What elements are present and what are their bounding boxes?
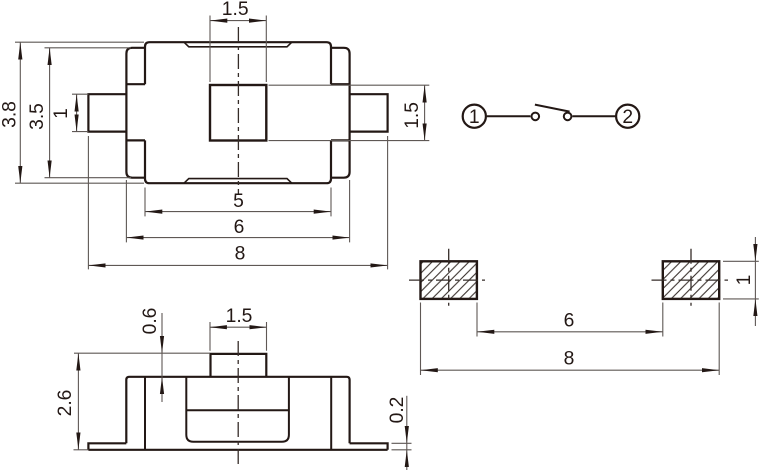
svg-text:1.5: 1.5 xyxy=(222,0,249,20)
svg-text:8: 8 xyxy=(564,349,575,370)
svg-text:0.2: 0.2 xyxy=(387,397,408,424)
svg-text:2: 2 xyxy=(622,107,633,128)
svg-text:1.5: 1.5 xyxy=(226,306,253,327)
svg-text:6: 6 xyxy=(564,311,575,332)
svg-text:5: 5 xyxy=(233,191,244,212)
svg-text:3.8: 3.8 xyxy=(0,101,20,128)
svg-text:1.5: 1.5 xyxy=(402,102,423,129)
svg-text:1: 1 xyxy=(734,275,755,286)
svg-text:8: 8 xyxy=(235,244,246,265)
svg-text:0.6: 0.6 xyxy=(140,308,161,335)
svg-text:6: 6 xyxy=(234,217,245,238)
svg-text:3.5: 3.5 xyxy=(27,103,48,130)
svg-text:1: 1 xyxy=(469,107,480,128)
svg-text:1: 1 xyxy=(51,108,72,119)
svg-text:2.6: 2.6 xyxy=(55,390,76,417)
